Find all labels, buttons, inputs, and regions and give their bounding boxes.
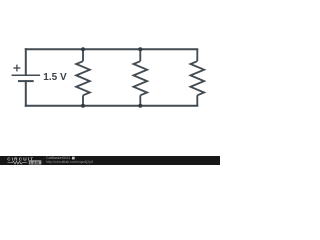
wire top rail: R1 node to R2 node (83, 48, 140, 50)
resistor R1 (76, 49, 90, 106)
svg-text:LAB: LAB (30, 161, 40, 165)
svg-text:http://circuitlab.com/cqw4j2p8: http://circuitlab.com/cqw4j2p8 (46, 160, 93, 164)
wire battery positive lead (25, 49, 27, 74)
wire bottom rail: R1 node to R2 node (83, 105, 140, 107)
wire top rail: R2 node to R3 (140, 48, 197, 50)
wire battery negative lead (25, 81, 27, 106)
footer bar (0, 156, 220, 165)
wire bottom rail: battery to R1 node (26, 105, 83, 107)
wire bottom rail: R2 node to R3 (140, 105, 197, 107)
wire top rail: battery to R1 node (26, 48, 83, 50)
resistor R3 (191, 49, 205, 106)
junction node: top of R1 (81, 47, 85, 51)
junction node: top of R2 (138, 47, 142, 51)
footer CircuitLab logo (7, 157, 41, 165)
resistor R2 (134, 49, 148, 106)
battery plus polarity mark (13, 65, 20, 72)
junction node: bottom of R1 (81, 104, 85, 108)
battery V1 1.5 V (12, 65, 67, 84)
junction node: bottom of R2 (138, 104, 142, 108)
